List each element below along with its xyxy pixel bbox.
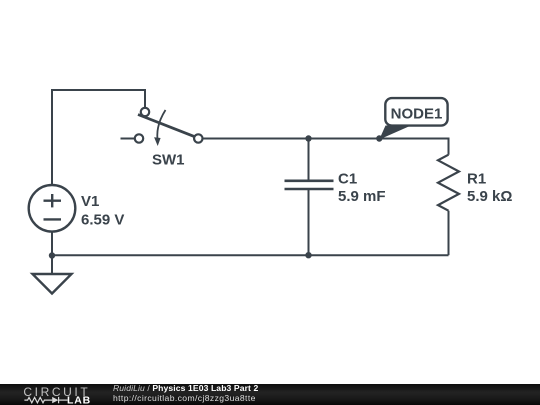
capacitor C1 [285, 139, 334, 256]
node NODE1 dot [376, 135, 382, 141]
svg-text:C1: C1 [338, 171, 357, 188]
NODE1 callout pointer [379, 126, 411, 140]
junction dot at capacitor top [305, 135, 311, 141]
footer title line [113, 383, 258, 393]
footer url line [113, 393, 256, 403]
svg-text:6.59 V: 6.59 V [81, 212, 124, 229]
junction dot below V1 [49, 252, 55, 258]
wire bottom horizontal [52, 254, 449, 256]
wire resistor bottom [448, 211, 450, 256]
svg-text:SW1: SW1 [152, 152, 185, 169]
svg-text:LAB: LAB [67, 394, 91, 405]
switch SW1 [135, 108, 203, 146]
wire top-left run [52, 90, 145, 186]
wire switch open stub [121, 138, 136, 140]
ground [33, 274, 72, 294]
svg-text:V1: V1 [81, 193, 99, 210]
CircuitLab logo [15, 384, 105, 405]
svg-text:NODE1: NODE1 [391, 106, 443, 123]
junction dot at capacitor bottom [305, 252, 311, 258]
resistor R1 [438, 155, 459, 211]
svg-text:5.9 kΩ: 5.9 kΩ [467, 188, 512, 205]
voltage source V1 [29, 185, 76, 232]
NODE1 callout box [385, 98, 447, 126]
footer bar [0, 384, 540, 405]
svg-text:5.9 mF: 5.9 mF [338, 188, 386, 205]
svg-text:R1: R1 [467, 171, 486, 188]
wire V1 bottom to ground lead [51, 231, 53, 274]
wire switch output to right corner [202, 139, 449, 155]
